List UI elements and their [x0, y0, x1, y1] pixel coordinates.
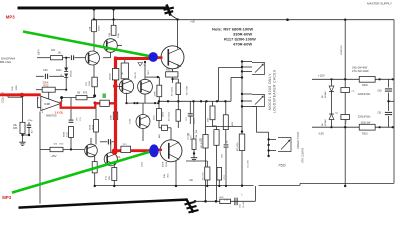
wire AB2 to TRbot — [168, 127, 172, 129]
wire box bottom edge — [300, 182, 394, 184]
resistor net 226 — [223, 115, 228, 130]
transistor TR4 — [138, 79, 153, 94]
node feedback — [93, 94, 96, 97]
wire R53 left — [40, 149, 50, 151]
wire connector to rail — [170, 15, 178, 20]
red wire to upper blue node — [116, 57, 151, 60]
capacitor C13 470p — [28, 122, 30, 125]
svg-text:R70: R70 — [83, 93, 88, 95]
svg-text:MASTER SUPPLY: MASTER SUPPLY — [367, 1, 392, 5]
resistor R93 — [217, 168, 222, 181]
resistor emitter 0R22 — [112, 168, 117, 181]
wire 194 top — [193, 101, 195, 139]
wire TR1 emitter down — [93, 65, 95, 77]
wire net col 226 upper — [225, 101, 227, 115]
resistor R202 — [359, 76, 375, 82]
wire R52B bottom — [95, 132, 97, 145]
wire TR5 emitter — [142, 129, 144, 141]
wire net col 216 mid — [212, 120, 214, 126]
power bus top (thick) — [18, 7, 170, 10]
svg-text:1K1: 1K1 — [58, 53, 63, 55]
node on +VE rail — [286, 18, 289, 21]
resistor in red path (lower) — [121, 146, 131, 152]
wire left drop column — [39, 112, 41, 204]
wire second stage top — [113, 9, 115, 25]
capacitor C52 out — [234, 198, 236, 206]
svg-text:1M: 1M — [77, 93, 80, 95]
wire jack feed 2 — [230, 78, 232, 102]
node R202 right — [379, 78, 381, 80]
svg-text:TR1B: TR1B — [166, 161, 168, 167]
direct out jack — [278, 138, 291, 152]
wire TR7 collector — [110, 142, 112, 153]
bus bottom connector symbol — [186, 199, 194, 213]
resistor col B — [176, 83, 181, 95]
wire emitter res to -VE — [113, 181, 115, 187]
capacitor C61b — [388, 116, 390, 127]
wire TR5 collector — [142, 103, 144, 114]
transistor TR2 (upper) — [104, 39, 118, 53]
red input wire — [0, 93, 41, 96]
resistor R101b — [92, 77, 97, 87]
wire jack bus — [241, 62, 243, 135]
diode zener top — [330, 78, 332, 80]
wire -VE rail — [95, 184, 254, 186]
transistor TR_out_top — [161, 46, 184, 69]
svg-text:C60: C60 — [377, 91, 382, 93]
svg-text:ETA: ETA — [163, 174, 166, 178]
svg-text:100u: 100u — [56, 69, 62, 72]
wire C59b link — [344, 120, 346, 128]
resistor R89 — [113, 112, 117, 120]
resistor R44 — [51, 56, 63, 60]
wire 470K top — [158, 77, 160, 85]
wire net col 205 — [205, 101, 207, 134]
resistor R91 — [205, 167, 210, 180]
resistor above TR3 — [121, 63, 128, 79]
speaker jack 1 — [252, 63, 265, 75]
svg-text:ZN21B: ZN21B — [110, 73, 112, 80]
svg-text:MG R111B: MG R111B — [201, 138, 203, 148]
wire op-amp pin5 — [37, 97, 39, 108]
svg-text:+15V: +15V — [318, 73, 325, 77]
svg-text:C4A: C4A — [89, 26, 92, 31]
wire cap to TR1 base — [75, 57, 90, 59]
wire +15V rail — [312, 78, 359, 80]
green speck — [103, 94, 106, 99]
svg-text:R36: R36 — [13, 127, 18, 130]
svg-text:MM07000: MM07000 — [46, 114, 57, 117]
transistor TR_out_bot — [160, 140, 182, 162]
wire feedback row — [62, 97, 95, 99]
wire TR3 emitter — [126, 93, 128, 103]
svg-text:-VE: -VE — [189, 178, 194, 182]
capacitor C36 plates — [44, 74, 46, 79]
wire 330o bottom — [158, 121, 160, 128]
svg-text:600R: 600R — [111, 115, 113, 120]
wire colB bottom — [177, 95, 179, 102]
svg-text:BR-1GH: BR-1GH — [0, 60, 11, 64]
svg-text:-: - — [42, 98, 43, 102]
component C59 bottom — [341, 115, 350, 120]
zener small — [138, 63, 143, 67]
wire TR1 collector to bus — [93, 9, 95, 51]
resistor R99 (top) — [111, 25, 116, 35]
svg-text:R52B: R52B — [89, 124, 91, 130]
green line 1 — [23, 32, 151, 57]
wire caps mid tap — [389, 100, 395, 102]
wire feedback node to opamp — [61, 98, 63, 102]
wire net col 216 upper — [212, 101, 214, 106]
svg-text:-15V: -15V — [318, 132, 324, 136]
wire TR2 base stub — [117, 45, 122, 47]
wire R93 — [218, 180, 220, 186]
resistor in red path (vert) — [112, 69, 118, 80]
wire jack2 stubs — [242, 93, 252, 95]
power bus bottom (thick) — [19, 200, 187, 208]
svg-text:150 5W: 150 5W — [188, 133, 190, 140]
blue node lower — [149, 144, 159, 157]
wire master supply box right edge — [393, 20, 395, 184]
speaker jack 2 — [252, 95, 265, 107]
wire out rail to -VE — [254, 186, 256, 201]
svg-text:R97 600R: R97 600R — [187, 85, 189, 95]
ground (input) — [22, 140, 24, 142]
wire jack feed 1 — [218, 68, 220, 102]
svg-text:MODEL 8200 ONLY: MODEL 8200 ONLY — [268, 73, 272, 110]
resistor R50 — [42, 87, 55, 92]
svg-text:360R: 360R — [16, 85, 18, 91]
red vertical rail — [114, 57, 117, 153]
wire R36 branch — [22, 96, 24, 122]
svg-text:B5HB: B5HB — [163, 161, 165, 167]
wire supply feed top — [344, 20, 346, 80]
svg-text:C60/P202: C60/P202 — [341, 44, 343, 55]
wire res to gnd — [193, 150, 195, 156]
wire lower rail — [195, 200, 255, 202]
wire R50 row — [36, 89, 42, 91]
transistor TR5 — [136, 115, 150, 129]
resistor R101 (top) — [92, 20, 97, 32]
capacitor drive line — [100, 141, 107, 143]
svg-text:100p: 100p — [118, 32, 120, 38]
wire TR6 collector — [90, 138, 92, 144]
wire cap row — [36, 75, 44, 77]
svg-text:C51 1R5: C51 1R5 — [248, 159, 250, 168]
wire colB2 — [177, 101, 179, 109]
resistor in jack column — [239, 134, 245, 151]
red stub lower transistor — [157, 149, 162, 151]
wire R52B top — [95, 108, 97, 120]
svg-text:DIRECT OUT: DIRECT OUT — [296, 131, 300, 148]
svg-text:R201: R201 — [362, 133, 368, 136]
ground output — [193, 156, 195, 158]
svg-text:R56B: R56B — [64, 131, 66, 137]
svg-text:C61: C61 — [377, 112, 382, 114]
resistor col B2 — [176, 110, 181, 122]
svg-text:470p: 470p — [28, 120, 34, 122]
wire C38 column — [70, 98, 72, 120]
svg-text:MP3: MP3 — [2, 195, 11, 200]
svg-text:LOUDSPEAKER CACES: LOUDSPEAKER CACES — [273, 70, 277, 113]
red node input — [20, 93, 24, 97]
transistor TR3 — [119, 79, 133, 93]
resistor R92 — [220, 199, 231, 203]
svg-text:IC9B: IC9B — [44, 102, 50, 106]
wire emitter join row — [127, 102, 160, 104]
transistor TR1 — [86, 51, 100, 65]
wire collector to +VE — [177, 20, 179, 49]
wire supply feed bottom — [344, 127, 346, 186]
svg-text:ZN21A: ZN21A — [70, 70, 73, 77]
wire TR3 base — [118, 85, 123, 87]
wire net col 216 down — [216, 145, 218, 201]
wire R53 to TR6 base — [63, 149, 84, 151]
node R201 right — [379, 126, 381, 128]
wire jack3 stubs — [269, 139, 276, 141]
svg-text:-15V: -15V — [50, 154, 56, 158]
node on red input wire — [20, 94, 23, 97]
resistor R117 — [166, 72, 178, 77]
svg-text:180C: 180C — [168, 173, 170, 178]
wire TRbot top — [170, 133, 172, 140]
svg-text:M2 AB1: M2 AB1 — [324, 90, 327, 98]
svg-text:CAL_INB: CAL_INB — [195, 129, 198, 138]
diode D21 — [64, 68, 68, 72]
wire 270o to node — [70, 137, 72, 149]
bus top connector symbol — [167, 5, 171, 16]
wire to ground — [22, 134, 24, 140]
wire direct-out col — [268, 132, 270, 156]
node below feedback — [94, 102, 97, 105]
svg-text:MJ 15024: MJ 15024 — [172, 86, 174, 96]
wire R117 down — [172, 77, 174, 83]
wire net col 226 mid — [225, 130, 227, 144]
svg-text:MP3: MP3 — [6, 15, 15, 20]
wire TR4 top — [144, 62, 146, 80]
wire mid cross — [206, 126, 243, 128]
svg-text:75Ω: 75Ω — [278, 163, 286, 168]
op-amp IC9B — [41, 96, 61, 110]
wire zener mid — [331, 98, 333, 114]
svg-text:R91 1K5: R91 1K5 — [203, 171, 205, 180]
resistor 270o R56 — [69, 126, 74, 137]
svg-text:M502: M502 — [99, 25, 101, 31]
svg-text:ZN17B: ZN17B — [135, 72, 137, 79]
wire net col 226 down — [225, 148, 227, 186]
resistor R36 33k — [20, 122, 25, 133]
resistor ZN6 — [210, 106, 215, 120]
svg-text:C6J: C6J — [186, 117, 188, 121]
resistor R70 1M — [76, 95, 87, 99]
red op-amp output path — [61, 102, 116, 108]
transistor TR7 — [104, 153, 117, 166]
wire R50 to op-amp — [48, 92, 50, 99]
wire jack1 stubs — [242, 61, 252, 63]
component C59 top — [341, 88, 350, 93]
red node mid — [113, 84, 118, 89]
wire TR6 emitter — [94, 156, 96, 162]
svg-text:470R-60W: 470R-60W — [233, 42, 252, 47]
resistor right of TRbot — [192, 139, 196, 150]
resistor R52B — [94, 120, 99, 133]
resistor R53 — [50, 147, 63, 151]
green line 2 — [12, 151, 152, 192]
wire 470K bottom — [158, 97, 160, 102]
wire TR6 res to -VE — [94, 173, 96, 186]
resistor 470K — [157, 85, 162, 97]
resistor AB2 small — [162, 125, 168, 130]
svg-text:A&T+: A&T+ — [38, 48, 41, 55]
transistor TR6 — [85, 144, 98, 157]
resistor in red path (mid) — [100, 100, 109, 106]
svg-text:21K0: 21K0 — [163, 111, 165, 117]
svg-text:2200uF/50v: 2200uF/50v — [358, 116, 371, 119]
svg-text:MC 6Z0U: MC 6Z0U — [237, 142, 239, 151]
resistor net 216 lower — [214, 130, 219, 146]
wire C59 links — [344, 79, 346, 87]
wire -15V rail — [312, 126, 359, 128]
wire under input — [8, 96, 22, 98]
svg-text:C36: C36 — [43, 69, 48, 72]
svg-text:R117: R117 — [166, 68, 173, 72]
wire TRtop emitter — [172, 69, 174, 72]
red stub upper transistor — [155, 56, 163, 59]
svg-text:R101: R101 — [89, 80, 91, 86]
svg-text:+VE: +VE — [190, 19, 195, 23]
wire colB top — [177, 79, 179, 83]
wire mid rail — [159, 100, 231, 102]
wire 330o top — [158, 101, 160, 108]
diode zener bottom — [329, 114, 334, 120]
svg-text:R202: R202 — [362, 84, 368, 87]
svg-text:+400V: +400V — [194, 117, 196, 124]
wire TR7 emitter — [113, 164, 115, 168]
svg-text:+: + — [42, 107, 44, 111]
capacitor net 226 — [224, 144, 229, 146]
svg-text:270o 5W-120W: 270o 5W-120W — [352, 70, 369, 73]
svg-text:1C5J: 1C5J — [224, 175, 226, 180]
blue node upper — [149, 52, 158, 62]
red wire to lower blue node — [116, 149, 151, 152]
diode D22 — [64, 74, 68, 78]
resistor net 205 — [203, 135, 208, 149]
wire cap to diodes — [49, 75, 64, 77]
capacitor C38 10u — [69, 119, 74, 121]
wire R44 to cap — [63, 57, 71, 59]
svg-text:470K: 470K — [155, 91, 157, 97]
svg-text:MJ 15024: MJ 15024 — [169, 111, 171, 121]
wire y77 link — [146, 76, 160, 78]
resistor R201 — [359, 124, 375, 130]
capacitor C60 — [388, 79, 390, 87]
svg-text:GTO 113MHO: GTO 113MHO — [302, 148, 305, 163]
svg-text:1K0B: 1K0B — [92, 124, 94, 130]
resistor under TR6 — [92, 162, 97, 173]
capacitor mid +400V — [189, 101, 191, 113]
capacitor C40 — [70, 55, 72, 60]
wire TR2 emitter — [110, 52, 112, 57]
svg-text:R6L: R6L — [117, 156, 122, 159]
wire resistor to feedback node — [94, 87, 96, 96]
wire direct-out feed — [255, 107, 257, 133]
wire TR3 top — [124, 60, 126, 64]
svg-text:4.7k: 4.7k — [224, 200, 228, 202]
svg-text:M2 AB1: M2 AB1 — [324, 118, 327, 126]
wire input row — [37, 57, 50, 59]
wire R91 — [206, 180, 208, 186]
red node bottom — [112, 148, 118, 155]
wire TRbot emitter to -VE — [175, 161, 177, 187]
resistor 330o mid — [157, 109, 162, 121]
svg-text:L00.1: L00.1 — [142, 161, 144, 167]
svg-text:0.22u C10: 0.22u C10 — [2, 91, 5, 103]
svg-text:C136: C136 — [130, 118, 132, 124]
svg-text:R44: R44 — [51, 50, 56, 52]
svg-text:2200uF/30v: 2200uF/30v — [358, 93, 371, 96]
svg-text:10u 6L: 10u 6L — [243, 201, 245, 208]
wire TR4 emitter — [144, 94, 146, 103]
wire +VE rail — [94, 19, 394, 21]
